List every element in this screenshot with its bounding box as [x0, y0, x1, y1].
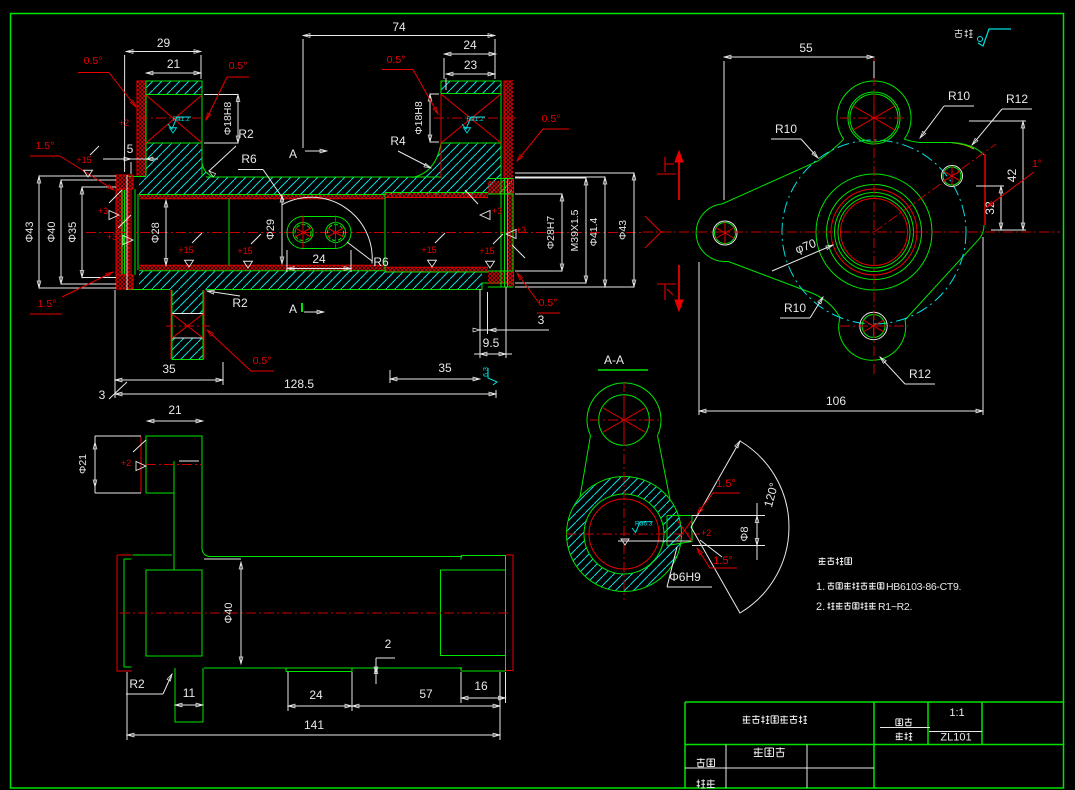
svg-text:A-A: A-A: [604, 353, 624, 367]
svg-text:+15: +15: [237, 246, 252, 256]
svg-text:R2: R2: [232, 296, 248, 310]
svg-text:35: 35: [162, 362, 176, 376]
svg-text:+3: +3: [107, 232, 117, 242]
svg-text:Φ8: Φ8: [739, 527, 751, 542]
svg-text:3: 3: [99, 388, 106, 402]
svg-text:29: 29: [157, 36, 171, 50]
svg-text:R6: R6: [373, 255, 389, 269]
svg-text:1.5°: 1.5°: [36, 140, 55, 152]
svg-text:+3: +3: [98, 206, 108, 216]
svg-text:0.5°: 0.5°: [84, 55, 103, 67]
svg-text:1.5°: 1.5°: [716, 478, 736, 490]
svg-text:Φ40: Φ40: [46, 221, 58, 242]
svg-text:141: 141: [304, 718, 324, 732]
svg-text:Ra1.2: Ra1.2: [466, 116, 484, 123]
svg-text:9.5: 9.5: [483, 336, 500, 350]
svg-text:24: 24: [309, 688, 323, 702]
svg-text:2: 2: [385, 637, 392, 651]
svg-text:2.: 2.: [816, 601, 825, 613]
svg-text:Φ29: Φ29: [265, 219, 277, 240]
svg-text:6.3: 6.3: [483, 367, 490, 377]
svg-text:+15: +15: [421, 245, 436, 255]
svg-text:R12: R12: [1006, 92, 1028, 106]
svg-text:R6: R6: [241, 152, 257, 166]
svg-text:1°: 1°: [1032, 158, 1042, 170]
svg-text:128.5: 128.5: [284, 377, 314, 391]
svg-text:Φ18H8: Φ18H8: [222, 102, 234, 136]
svg-text:Ra1.2: Ra1.2: [172, 116, 190, 123]
svg-text:1.: 1.: [816, 581, 825, 593]
svg-text:R10: R10: [775, 122, 797, 136]
svg-text:Φ6H9: Φ6H9: [669, 570, 701, 584]
svg-text:+15: +15: [178, 245, 193, 255]
svg-text:+2: +2: [119, 118, 129, 128]
svg-text:+3: +3: [516, 225, 526, 235]
svg-text:R12: R12: [909, 367, 931, 381]
svg-text:0.5°: 0.5°: [387, 54, 406, 66]
svg-text:0.5°: 0.5°: [539, 297, 558, 309]
svg-text:1.5°: 1.5°: [713, 555, 733, 567]
svg-text:HB6103-86-CT9.: HB6103-86-CT9.: [886, 581, 961, 593]
svg-text:5: 5: [127, 142, 134, 156]
svg-text:+2: +2: [701, 528, 711, 538]
svg-text:R2: R2: [238, 127, 254, 141]
svg-text:Ra6.3: Ra6.3: [635, 520, 653, 527]
svg-text:Φ21: Φ21: [77, 454, 89, 474]
svg-text:R10: R10: [948, 89, 970, 103]
svg-text:3: 3: [538, 313, 545, 327]
svg-text:24: 24: [463, 38, 477, 52]
svg-text:Φ35: Φ35: [67, 222, 79, 243]
svg-text:21: 21: [168, 403, 182, 417]
svg-text:16: 16: [474, 679, 488, 693]
svg-text:+15: +15: [479, 246, 494, 256]
svg-text:74: 74: [392, 20, 406, 34]
svg-text:A: A: [289, 147, 297, 161]
svg-text:A: A: [289, 302, 297, 316]
svg-text:M39X1.5: M39X1.5: [569, 209, 581, 251]
svg-text:ZL101: ZL101: [940, 732, 971, 744]
svg-text:21: 21: [167, 57, 181, 71]
svg-text:+2: +2: [121, 458, 131, 468]
svg-text:57: 57: [419, 687, 433, 701]
svg-text:Φ18H8: Φ18H8: [413, 101, 425, 135]
svg-text:Φ28H7: Φ28H7: [545, 216, 557, 250]
svg-text:24: 24: [312, 252, 326, 266]
svg-text:42: 42: [1005, 169, 1019, 183]
svg-text:R10: R10: [784, 301, 806, 315]
svg-text:Φ43: Φ43: [617, 220, 629, 240]
svg-text:+15: +15: [76, 155, 91, 165]
svg-text:Φ43: Φ43: [24, 221, 36, 242]
svg-text:0.5°: 0.5°: [253, 355, 272, 367]
svg-text:+3: +3: [492, 206, 502, 216]
svg-text:Φ41.4: Φ41.4: [588, 217, 600, 246]
svg-text:R4: R4: [390, 134, 406, 148]
svg-text:Φ28: Φ28: [150, 222, 162, 243]
svg-text:1.5°: 1.5°: [38, 298, 57, 310]
svg-text:Φ40: Φ40: [223, 602, 235, 623]
svg-text:0.5°: 0.5°: [542, 113, 561, 125]
svg-text:23: 23: [464, 58, 478, 72]
svg-text:R1~R2.: R1~R2.: [878, 601, 912, 613]
svg-text:R2: R2: [129, 677, 145, 691]
svg-text:11: 11: [183, 686, 196, 700]
svg-text:0.5°: 0.5°: [229, 60, 248, 72]
svg-text:1:1: 1:1: [949, 707, 964, 719]
svg-text:35: 35: [438, 361, 452, 375]
svg-text:106: 106: [826, 394, 846, 408]
svg-text:55: 55: [799, 41, 813, 55]
